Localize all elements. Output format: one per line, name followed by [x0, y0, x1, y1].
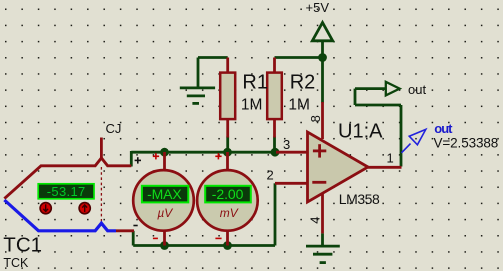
svg-text:-2.00: -2.00 [212, 186, 244, 202]
svg-text:mV: mV [220, 206, 239, 220]
svg-text:R2: R2 [290, 71, 316, 93]
svg-text:4: 4 [308, 216, 323, 223]
svg-text:U1:A: U1:A [338, 120, 383, 142]
svg-text:TCK: TCK [3, 256, 29, 270]
svg-text:TC1: TC1 [3, 234, 42, 257]
svg-text:V=2.53388: V=2.53388 [434, 135, 499, 150]
svg-text:1M: 1M [288, 96, 310, 113]
svg-text:1: 1 [387, 151, 394, 166]
svg-text:out: out [408, 82, 426, 97]
svg-text:+5V: +5V [306, 0, 330, 15]
svg-text:out: out [434, 121, 453, 136]
svg-text:R1: R1 [242, 71, 268, 93]
svg-text:-53.17: -53.17 [47, 184, 86, 199]
svg-text:1M: 1M [241, 96, 263, 113]
svg-text:3: 3 [283, 137, 290, 152]
svg-text:LM358: LM358 [339, 191, 380, 207]
svg-text:2: 2 [267, 168, 274, 183]
svg-text:-MAX: -MAX [147, 186, 182, 202]
svg-text:µV: µV [157, 206, 173, 220]
svg-text:8: 8 [308, 115, 323, 122]
svg-text:CJ: CJ [106, 121, 122, 136]
